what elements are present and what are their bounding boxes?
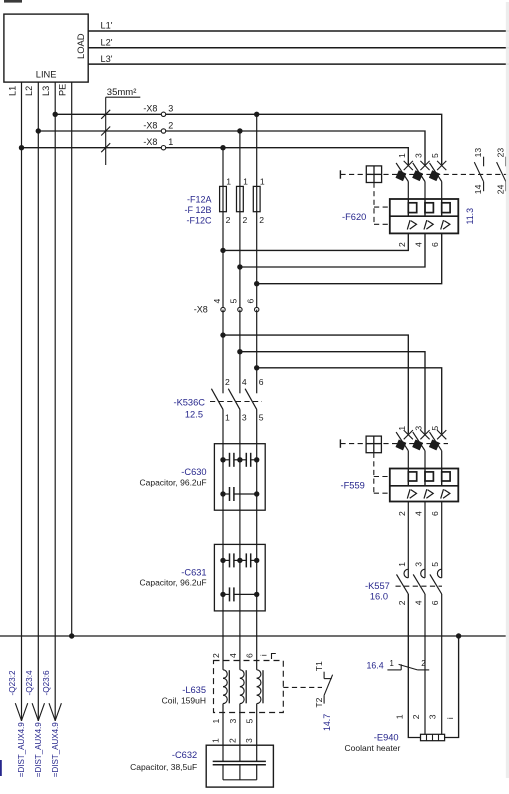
svg-text:6: 6 bbox=[430, 600, 440, 605]
svg-text:4: 4 bbox=[414, 511, 424, 516]
svg-text:16.0: 16.0 bbox=[370, 591, 388, 601]
svg-text:L3': L3' bbox=[101, 54, 113, 64]
svg-text:2: 2 bbox=[397, 242, 407, 247]
wire L1' (load side) bbox=[88, 21, 509, 31]
terminal -X8:2 bbox=[143, 120, 173, 133]
svg-text:16.4: 16.4 bbox=[367, 660, 384, 670]
breaker contact -F559 pin 3/4 bbox=[412, 426, 429, 516]
pin labels -E940 bbox=[394, 714, 455, 719]
svg-text:4: 4 bbox=[228, 653, 238, 658]
svg-text:i: i bbox=[259, 654, 269, 656]
wire -K536C pin 3 to -C630 bbox=[239, 409, 241, 443]
mech link dashed -F559 bbox=[340, 443, 448, 445]
wire -F620 pin 4 to fuse column bbox=[240, 233, 425, 267]
manual operator -F620 bbox=[366, 166, 381, 183]
wire -X8:4 to junction bbox=[222, 310, 224, 336]
label -E940 bbox=[345, 733, 401, 754]
svg-text:T2: T2 bbox=[314, 697, 324, 707]
heater element -E940 bbox=[421, 734, 445, 740]
svg-text:-F 12B: -F 12B bbox=[184, 205, 211, 215]
junction fuse 3 output / -F620 return bbox=[254, 281, 259, 286]
svg-text:1: 1 bbox=[211, 719, 221, 724]
fuse -F12C bbox=[253, 176, 265, 225]
line filter box (LINE/LOAD) bbox=[4, 14, 88, 82]
svg-text:2: 2 bbox=[259, 215, 264, 225]
aux contact -F620 23/24 bbox=[496, 148, 506, 195]
svg-text:1: 1 bbox=[390, 659, 394, 668]
svg-text:5: 5 bbox=[430, 153, 440, 158]
svg-text:3: 3 bbox=[428, 714, 438, 719]
junction L3/-X8:3 bbox=[53, 112, 58, 117]
terminal -X8:4 bbox=[212, 299, 225, 312]
trip unit box -F620 bbox=[390, 199, 459, 233]
thermal overload symbol I> -F559 pole 2 bbox=[424, 489, 433, 498]
trip element -F620 pole 2 bbox=[425, 199, 433, 216]
svg-text:-F12A: -F12A bbox=[187, 194, 212, 204]
wire L3 feeder bbox=[41, 82, 55, 721]
breaker contact -F559 pin 5/6 bbox=[429, 426, 446, 516]
contact -K557 pin 1/2 bbox=[397, 562, 409, 606]
svg-text:2: 2 bbox=[397, 511, 407, 516]
destination label =DIST_AUX4.9 (-Q23:6) bbox=[51, 722, 60, 777]
svg-text:6: 6 bbox=[430, 242, 440, 247]
trip element -F559 pole 3 bbox=[442, 469, 450, 486]
wire fuse branch 1 (X8 wire to -X8:4) bbox=[222, 148, 224, 310]
operator link dashed -F559 bbox=[374, 453, 390, 494]
fuse -F12A bbox=[220, 176, 232, 225]
capacitor box -C632 bbox=[206, 745, 273, 787]
wire -X8:6 to junction bbox=[256, 310, 258, 368]
wire L3' (load side) bbox=[88, 54, 509, 64]
wire L1 feeder bbox=[7, 82, 21, 721]
svg-text:Capacitor, 96.2uF: Capacitor, 96.2uF bbox=[139, 477, 206, 487]
wire junction to -K536C pin 4 bbox=[239, 352, 241, 394]
mech link dashed -K536C bbox=[210, 401, 262, 403]
svg-text:-Q23:2: -Q23:2 bbox=[8, 670, 17, 695]
wire -K557:6 to -E940:3 bbox=[441, 594, 443, 734]
off-page arrow -Q23:2 bbox=[8, 670, 28, 721]
svg-text:3: 3 bbox=[244, 738, 254, 743]
svg-text:1: 1 bbox=[397, 426, 407, 431]
label -K536C bbox=[173, 398, 205, 420]
svg-text:5: 5 bbox=[430, 426, 440, 431]
junction -X8:3/fuse branch bbox=[254, 112, 259, 117]
label -C631 bbox=[139, 567, 206, 587]
svg-text:-X8: -X8 bbox=[143, 137, 157, 147]
svg-text:-C630: -C630 bbox=[181, 467, 206, 477]
svg-text:LOAD: LOAD bbox=[75, 33, 86, 59]
svg-text:-X8: -X8 bbox=[194, 304, 208, 314]
mech link dashed -K557 bbox=[396, 585, 443, 587]
breaker contact -F620 pin 5/6 bbox=[429, 153, 446, 247]
label -C630 bbox=[139, 467, 206, 487]
wire -X8:1 bbox=[22, 148, 409, 165]
contact -K536C pin 4/3 bbox=[228, 377, 247, 422]
thermal overload symbol I> -F620 pole 3 bbox=[441, 220, 450, 229]
contact -K557 pin 5/6 bbox=[430, 562, 442, 606]
aux contact 16.4 (-E940 control) bbox=[367, 659, 430, 671]
svg-text:=DIST_AUX4.9: =DIST_AUX4.9 bbox=[34, 722, 43, 777]
wire -F620 pin 6 to fuse column bbox=[257, 233, 442, 283]
wire branch to -F559 pin 5 bbox=[257, 368, 442, 434]
destination label =DIST_AUX4.9 (-Q23:2) bbox=[17, 722, 26, 777]
junction PE feeder / PE bus bbox=[69, 633, 74, 638]
svg-text:5: 5 bbox=[245, 719, 255, 724]
junction -X8:2/fuse branch bbox=[237, 128, 242, 133]
svg-text:Capacitor, 96.2uF: Capacitor, 96.2uF bbox=[139, 577, 206, 587]
svg-text:1: 1 bbox=[260, 176, 265, 186]
junction branch to -F559 pole 3 bbox=[254, 365, 259, 370]
fuse -F12B bbox=[237, 176, 249, 225]
svg-text:14: 14 bbox=[473, 184, 483, 194]
svg-text:2: 2 bbox=[397, 600, 407, 605]
wire -K557:2 to -E940:1 bbox=[408, 594, 420, 738]
svg-text:-C631: -C631 bbox=[181, 567, 206, 577]
inductor -L635 winding 1 bbox=[211, 653, 229, 724]
label -F620 bbox=[342, 212, 366, 222]
junction fuse 1 output / -F620 return bbox=[220, 248, 225, 253]
wire -F620 pin 2 to fuse column bbox=[223, 233, 408, 250]
svg-text:1: 1 bbox=[397, 562, 407, 567]
breaker contact -F559 pin 1/2 bbox=[395, 426, 412, 516]
svg-text:11.3: 11.3 bbox=[465, 208, 475, 225]
svg-text:2: 2 bbox=[421, 659, 425, 668]
svg-text:1: 1 bbox=[397, 153, 407, 158]
capacitor plates -C632 bbox=[213, 761, 266, 764]
svg-text:1: 1 bbox=[211, 738, 221, 743]
svg-text:1: 1 bbox=[394, 714, 404, 719]
svg-text:14.7: 14.7 bbox=[322, 714, 332, 731]
wire fuse branch 3 (X8 wire to -X8:6) bbox=[256, 114, 258, 309]
svg-text:4: 4 bbox=[242, 377, 247, 387]
svg-text:L1: L1 bbox=[7, 86, 17, 96]
svg-text:2: 2 bbox=[227, 738, 237, 743]
off-page arrow -Q23:4 bbox=[25, 670, 45, 721]
junction PE bus / -E940:i bbox=[456, 633, 461, 638]
wire -K536C pin 1 to -C630 bbox=[222, 409, 224, 443]
junction L1/-X8:1 bbox=[19, 145, 24, 150]
wire branch to -F559 pin 1 bbox=[223, 335, 408, 434]
trip element -F559 pole 1 bbox=[408, 469, 416, 486]
svg-text:L1': L1' bbox=[101, 21, 113, 31]
terminal -X8:1 bbox=[143, 137, 173, 150]
svg-text:3: 3 bbox=[414, 426, 424, 431]
wire -F559 pin 6 to -K557 bbox=[441, 502, 443, 578]
svg-text:6: 6 bbox=[430, 511, 440, 516]
mech link dashed -F620 bbox=[340, 173, 507, 175]
thermal contact T1/T2 (14.7) bbox=[314, 661, 333, 708]
svg-text:23: 23 bbox=[496, 148, 506, 158]
svg-text:-K536C: -K536C bbox=[173, 398, 205, 408]
manual operator -F559 bbox=[366, 436, 381, 453]
inductor -L635 winding 3 bbox=[245, 653, 263, 724]
wire branch to -F559 pin 3 bbox=[240, 352, 425, 434]
breaker contact -F620 pin 3/4 bbox=[412, 153, 429, 247]
svg-text:-X8: -X8 bbox=[143, 120, 157, 130]
capacitor -C630 bbox=[214, 444, 265, 511]
pin i stub -L635 bbox=[259, 654, 276, 660]
svg-text:1: 1 bbox=[168, 137, 173, 147]
junction fuse 2 output / -F620 return bbox=[237, 264, 242, 269]
svg-text:4: 4 bbox=[212, 299, 222, 304]
wire columns through -C630 bbox=[223, 444, 257, 511]
trip element -F620 pole 3 bbox=[442, 199, 450, 216]
svg-text:3: 3 bbox=[414, 153, 424, 158]
svg-text:1: 1 bbox=[225, 412, 230, 422]
wire -X8:5 to junction bbox=[239, 310, 241, 352]
svg-text:5: 5 bbox=[259, 412, 264, 422]
contact -K557 pin 3/4 bbox=[413, 562, 425, 606]
terminal -X8:5 bbox=[229, 299, 242, 312]
svg-text:-Q23:4: -Q23:4 bbox=[25, 670, 34, 695]
aux contact -F620 13/14 bbox=[473, 148, 483, 195]
svg-text:1: 1 bbox=[243, 176, 248, 186]
junction L2/-X8:2 bbox=[36, 128, 41, 133]
junction branch to -F559 pole 1 bbox=[220, 332, 225, 337]
wire junction to -K536C pin 2 bbox=[222, 335, 224, 393]
contact -K536C pin 2/1 bbox=[211, 377, 230, 422]
inductor -L635 winding 2 bbox=[228, 653, 246, 724]
svg-text:35mm²: 35mm² bbox=[107, 87, 137, 98]
thermal overload symbol I> -F620 pole 2 bbox=[424, 220, 433, 229]
label -K557 bbox=[365, 581, 390, 601]
wire -C630 to -C631 (3 columns) bbox=[223, 510, 257, 544]
svg-text:-Q23:6: -Q23:6 bbox=[42, 670, 51, 695]
wire L2 feeder bbox=[24, 82, 38, 721]
svg-text:L2': L2' bbox=[101, 38, 113, 48]
svg-text:3: 3 bbox=[168, 104, 173, 114]
wire -X8:2 bbox=[38, 131, 425, 165]
wire -C631 to -L635 (3 columns) bbox=[223, 611, 257, 661]
svg-text:2: 2 bbox=[243, 215, 248, 225]
terminal -X8:6 bbox=[246, 299, 259, 312]
svg-text:-C632: -C632 bbox=[172, 750, 197, 760]
wire gauge marker 35mm² bbox=[101, 87, 140, 165]
svg-text:3: 3 bbox=[228, 719, 238, 724]
star point -C632 bbox=[223, 765, 257, 780]
svg-text:12.5: 12.5 bbox=[185, 409, 203, 419]
svg-text:3: 3 bbox=[242, 412, 247, 422]
off-page arrow -Q23:6 bbox=[42, 670, 62, 721]
svg-text:24: 24 bbox=[496, 184, 506, 194]
svg-text:L2: L2 bbox=[24, 86, 34, 96]
inductor box -L635 (dashed) bbox=[214, 661, 284, 713]
terminal label -X8 (4..6) bbox=[194, 304, 208, 314]
svg-text:-F559: -F559 bbox=[341, 480, 365, 490]
breaker contact -F620 pin 1/2 bbox=[395, 153, 412, 247]
svg-text:2: 2 bbox=[211, 653, 221, 658]
svg-text:4: 4 bbox=[414, 242, 424, 247]
svg-text:Coolant heater: Coolant heater bbox=[345, 743, 401, 753]
svg-text:L3: L3 bbox=[41, 86, 51, 96]
svg-text:13: 13 bbox=[473, 148, 483, 158]
wire -K557:4 to -E940:2 bbox=[424, 594, 426, 734]
svg-text:i: i bbox=[445, 717, 455, 719]
svg-text:1: 1 bbox=[226, 176, 231, 186]
thermal overload symbol I> -F559 pole 1 bbox=[407, 489, 416, 498]
contact -K536C pin 6/5 bbox=[245, 377, 264, 422]
junction -X8:1/fuse branch bbox=[220, 145, 225, 150]
capacitor -C631 bbox=[214, 544, 265, 611]
svg-text:Capacitor, 38,5uF: Capacitor, 38,5uF bbox=[130, 762, 197, 772]
svg-text:-L635: -L635 bbox=[182, 685, 206, 695]
thermal link dashed -L635 to T1/T2 bbox=[283, 686, 322, 688]
thermal overload symbol I> -F559 pole 3 bbox=[441, 489, 450, 498]
wire L2' (load side) bbox=[88, 38, 509, 48]
svg-text:2: 2 bbox=[411, 714, 421, 719]
wire -F559 pin 4 to -K557 bbox=[424, 502, 426, 578]
terminal -X8:3 bbox=[143, 104, 173, 117]
svg-text:2: 2 bbox=[225, 377, 230, 387]
wire PE bus to -E940:i bbox=[445, 636, 459, 738]
trip element -F559 pole 2 bbox=[425, 469, 433, 486]
wire junction to -K536C pin 6 bbox=[256, 368, 258, 394]
svg-text:4: 4 bbox=[414, 600, 424, 605]
svg-text:T1: T1 bbox=[314, 661, 324, 671]
svg-text:Coil, 159uH: Coil, 159uH bbox=[162, 695, 206, 705]
fuse labels -F12A -F12B -F12C bbox=[184, 194, 212, 225]
wire columns through -C631 bbox=[223, 544, 257, 611]
pin labels -C632 bbox=[211, 738, 255, 743]
svg-text:PE: PE bbox=[58, 84, 68, 96]
label -F559 bbox=[341, 480, 365, 490]
svg-text:-F620: -F620 bbox=[342, 212, 366, 222]
svg-text:=DIST_AUX4.9: =DIST_AUX4.9 bbox=[17, 722, 26, 777]
svg-text:2: 2 bbox=[168, 120, 173, 130]
svg-text:-X8: -X8 bbox=[143, 104, 157, 114]
svg-text:2: 2 bbox=[226, 215, 231, 225]
wire -L635 to -C632 (3 columns) bbox=[223, 713, 257, 762]
junction branch to -F559 pole 2 bbox=[237, 349, 242, 354]
operator link dashed -F620 bbox=[374, 183, 390, 225]
thermal overload symbol I> -F620 pole 1 bbox=[407, 220, 416, 229]
svg-text:5: 5 bbox=[430, 562, 440, 567]
svg-text:6: 6 bbox=[246, 299, 256, 304]
actuator handle -F559 bbox=[339, 439, 341, 447]
wire -X8:3 bbox=[55, 114, 442, 164]
wire -K536C pin 5 to -C630 bbox=[256, 409, 258, 443]
cross-reference 11.3 bbox=[465, 208, 475, 225]
label -C632 bbox=[130, 750, 197, 772]
svg-text:-E940: -E940 bbox=[374, 733, 399, 743]
trip unit box -F559 bbox=[390, 469, 459, 502]
wire -F559 pin 2 to -K557 bbox=[407, 502, 409, 578]
actuator handle -F620 bbox=[339, 170, 341, 178]
trip element -F620 pole 1 bbox=[408, 199, 416, 216]
svg-text:5: 5 bbox=[229, 299, 239, 304]
cross-reference 14.7 bbox=[322, 714, 332, 731]
svg-text:6: 6 bbox=[245, 653, 255, 658]
svg-text:-K557: -K557 bbox=[365, 581, 390, 591]
svg-text:LINE: LINE bbox=[36, 69, 57, 79]
svg-text:-F12C: -F12C bbox=[186, 216, 212, 226]
destination label =DIST_AUX4.9 (-Q23:4) bbox=[34, 722, 43, 777]
svg-text:6: 6 bbox=[259, 377, 264, 387]
label -L635 bbox=[162, 685, 206, 706]
svg-text:=DIST_AUX4.9: =DIST_AUX4.9 bbox=[51, 722, 60, 777]
wire fuse branch 2 (X8 wire to -X8:5) bbox=[239, 131, 241, 310]
svg-text:3: 3 bbox=[414, 562, 424, 567]
wire PE feeder bbox=[58, 82, 72, 636]
wire PE bus bbox=[0, 635, 506, 637]
